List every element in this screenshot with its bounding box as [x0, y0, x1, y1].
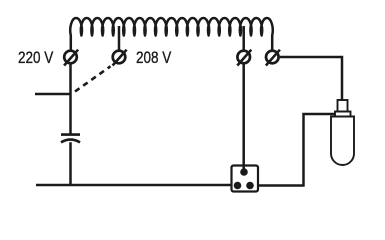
- lamp-holder box S1: [232, 166, 259, 192]
- terminal T1: [64, 50, 78, 66]
- svg-text:220 V: 220 V: [18, 49, 53, 68]
- svg-text:208 V: 208 V: [136, 49, 171, 68]
- terminal T3: [237, 50, 251, 66]
- wire tap T3 up: [242, 26, 245, 50]
- capacitor C1: [61, 135, 80, 143]
- wire riser right: [304, 114, 336, 187]
- dashed tap line: [75, 66, 111, 91]
- wire capacitor down: [69, 142, 72, 185]
- wire T4 to starter top: [280, 57, 342, 100]
- wire T3 down to box: [242, 64, 245, 172]
- starter/capacitor cylinder: [331, 100, 354, 165]
- terminal T4: [266, 50, 280, 66]
- inductor L1 (autotransformer winding): [70, 18, 273, 50]
- terminal T2: [113, 50, 127, 66]
- wire box right: [258, 184, 304, 187]
- bottom rail wire: [36, 184, 232, 187]
- node stub wire: [35, 93, 71, 96]
- wire tap T2 up: [118, 26, 121, 50]
- wire T1 down to capacitor: [69, 64, 72, 134]
